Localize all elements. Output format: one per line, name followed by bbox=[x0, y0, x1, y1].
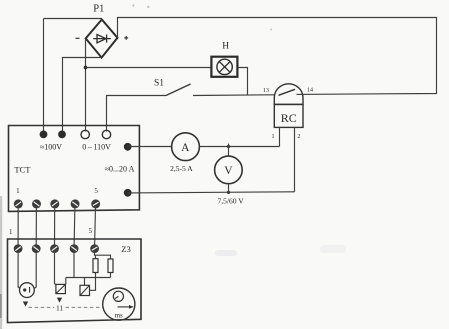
svg-text:H: H bbox=[222, 42, 229, 52]
label P1 bbox=[93, 4, 104, 15]
actuator arrow below coil K1 bbox=[57, 298, 62, 303]
wire Z3 internal rail bbox=[66, 277, 111, 279]
junction node at P1 minus branch bbox=[84, 66, 88, 70]
resistor R2 bbox=[108, 259, 113, 273]
wire TCT return to RC pin 2 bbox=[128, 192, 295, 193]
wire P1 bottom corner to terminal 2 bbox=[63, 58, 102, 132]
wire Z3 terminal 4 to rail bbox=[73, 253, 75, 278]
screw terminal TCT 3 bbox=[50, 199, 59, 208]
svg-text:0 – 110V: 0 – 110V bbox=[82, 143, 111, 152]
svg-text:≈100V: ≈100V bbox=[40, 143, 62, 152]
wire TCT screw 1 to Z3 bbox=[17, 206, 19, 246]
wire rail to coil K2 top bbox=[84, 278, 86, 286]
voltmeter V bbox=[215, 156, 243, 184]
svg-text:V: V bbox=[224, 165, 233, 177]
svg-text:RC: RC bbox=[281, 111, 297, 125]
mechanical linkage dashed right bbox=[66, 306, 103, 308]
screw terminal Z3 5 bbox=[90, 244, 99, 253]
label S1 bbox=[154, 79, 164, 89]
svg-text:1: 1 bbox=[9, 228, 13, 236]
wire TCT screw 3 to Z3 bbox=[54, 206, 56, 246]
svg-text:Z3: Z3 bbox=[121, 244, 130, 254]
wire coil K2 right link to rail bbox=[90, 278, 96, 291]
relay coil K1 bbox=[56, 284, 66, 293]
linkage label 11 bbox=[56, 304, 63, 313]
screw terminal Z3 4 bbox=[70, 244, 79, 253]
value label 0-110V bbox=[82, 143, 111, 152]
terminal 110V b bbox=[102, 130, 110, 138]
svg-text:2,5-5 A: 2,5-5 A bbox=[170, 164, 193, 173]
relay unit Z3 bbox=[8, 239, 142, 323]
terminal 100V b bbox=[58, 131, 66, 139]
screw terminal TCT 5 bbox=[91, 199, 100, 208]
wire junction to lamp H bbox=[86, 67, 212, 69]
terminal TCT current out bbox=[124, 143, 132, 151]
wire riser terminal 4 to switch S1 bbox=[107, 96, 167, 132]
wire riser terminal 1 bbox=[43, 19, 45, 132]
screw terminal Z3 2 bbox=[32, 244, 41, 253]
wire resistor R1 bottom stub bbox=[95, 273, 97, 278]
svg-text:14: 14 bbox=[307, 87, 313, 93]
ammeter A bbox=[172, 133, 200, 161]
relay coil K2 bbox=[80, 285, 90, 295]
svg-text:5: 5 bbox=[94, 187, 98, 195]
svg-text:13: 13 bbox=[263, 88, 269, 94]
wire TCT screw 5 to Z3 bbox=[94, 206, 97, 246]
svg-text:2: 2 bbox=[297, 134, 300, 140]
wire ammeter to RC pin 1 bbox=[199, 146, 279, 148]
screw terminal TCT 2 bbox=[32, 199, 41, 208]
scan artifacts bbox=[0, 5, 346, 329]
svg-text:A: A bbox=[181, 142, 190, 154]
relay RC bbox=[274, 84, 303, 128]
wire Z3 terminal 1 to motor bbox=[18, 253, 20, 289]
svg-text:P1: P1 bbox=[93, 4, 104, 15]
svg-text:S1: S1 bbox=[154, 79, 164, 89]
power source TCT bbox=[9, 126, 140, 212]
motor element in Z3 bbox=[20, 283, 35, 298]
label 1 above Z3 bbox=[9, 228, 13, 236]
svg-text:ms: ms bbox=[115, 311, 123, 319]
wire resistor R1 top stub bbox=[95, 255, 97, 259]
pin number 1 bbox=[272, 134, 275, 140]
wire Z3 terminal 5 node bbox=[95, 253, 111, 259]
value label 7,5/60 V bbox=[218, 197, 245, 206]
polarity plus bbox=[124, 36, 128, 40]
wire RC pin 2 bbox=[294, 127, 296, 191]
actuator arrow below motor bbox=[23, 302, 28, 307]
rectifier P1 bbox=[86, 20, 118, 58]
value label 2,5-5 A bbox=[170, 164, 193, 173]
junction voltmeter top bbox=[227, 144, 230, 148]
svg-text:TCT: TCT bbox=[14, 165, 31, 175]
wire TCT screw 4 to Z3 bbox=[73, 206, 76, 246]
wire P1 left corner to terminal 3 bbox=[85, 38, 87, 131]
screw terminal Z3 1 bbox=[14, 244, 23, 253]
polarity minus bbox=[76, 37, 80, 39]
svg-text:11: 11 bbox=[56, 304, 63, 313]
wire resistor R2 bottom stub bbox=[110, 273, 112, 278]
screw terminal Z3 3 bbox=[50, 244, 59, 253]
timer dial in Z3 bbox=[103, 288, 135, 320]
pin number 14 bbox=[307, 87, 313, 93]
label 1 above TCT screw row bbox=[16, 187, 20, 195]
value label 100V bbox=[40, 143, 62, 152]
resistor R1 bbox=[93, 259, 98, 273]
wire TCT to ammeter bbox=[128, 146, 172, 148]
wire RC pin 1 bbox=[279, 127, 281, 146]
screw terminal TCT 1 bbox=[14, 199, 23, 208]
svg-text:1: 1 bbox=[272, 134, 275, 140]
pin number 13 bbox=[263, 88, 269, 94]
wire voltmeter top stub bbox=[228, 147, 230, 157]
terminal 110V a bbox=[81, 130, 89, 138]
terminal TCT current return bbox=[124, 189, 132, 197]
value label 0-20A bbox=[105, 165, 135, 174]
label 5 above Z3 bbox=[89, 227, 93, 235]
label H bbox=[222, 42, 229, 52]
label 5 above TCT screw row bbox=[94, 187, 98, 195]
wire coil K1 to rail bbox=[65, 278, 67, 285]
terminal 100V a bbox=[40, 131, 48, 139]
switch S1 blade bbox=[166, 84, 191, 96]
junction voltmeter bottom bbox=[227, 191, 230, 194]
wire Z3 terminal 3 to coil K1 bbox=[55, 253, 57, 285]
svg-text:5: 5 bbox=[89, 227, 93, 235]
wire TCT screw 2 to Z3 bbox=[35, 206, 37, 246]
label TCT bbox=[14, 165, 31, 175]
wire switch S1 to RC pin 13 bbox=[193, 94, 274, 97]
wire lamp H to switch net bbox=[237, 68, 247, 95]
wire right rail (P1 plus to RC 14) bbox=[118, 18, 437, 95]
svg-text:7,5/60 V: 7,5/60 V bbox=[218, 197, 245, 206]
lamp H bbox=[211, 57, 237, 77]
wire top rail left bbox=[44, 18, 102, 20]
label Z3 bbox=[121, 244, 130, 254]
svg-text:1: 1 bbox=[16, 187, 20, 195]
mechanical linkage dashed left bbox=[29, 306, 55, 308]
pin number 2 bbox=[297, 134, 300, 140]
wire Z3 terminal 2 to motor bbox=[34, 253, 36, 289]
screw terminal TCT 4 bbox=[71, 199, 80, 208]
svg-text:≈0...20 A: ≈0...20 A bbox=[105, 165, 135, 174]
wire voltmeter bottom stub bbox=[228, 184, 230, 193]
